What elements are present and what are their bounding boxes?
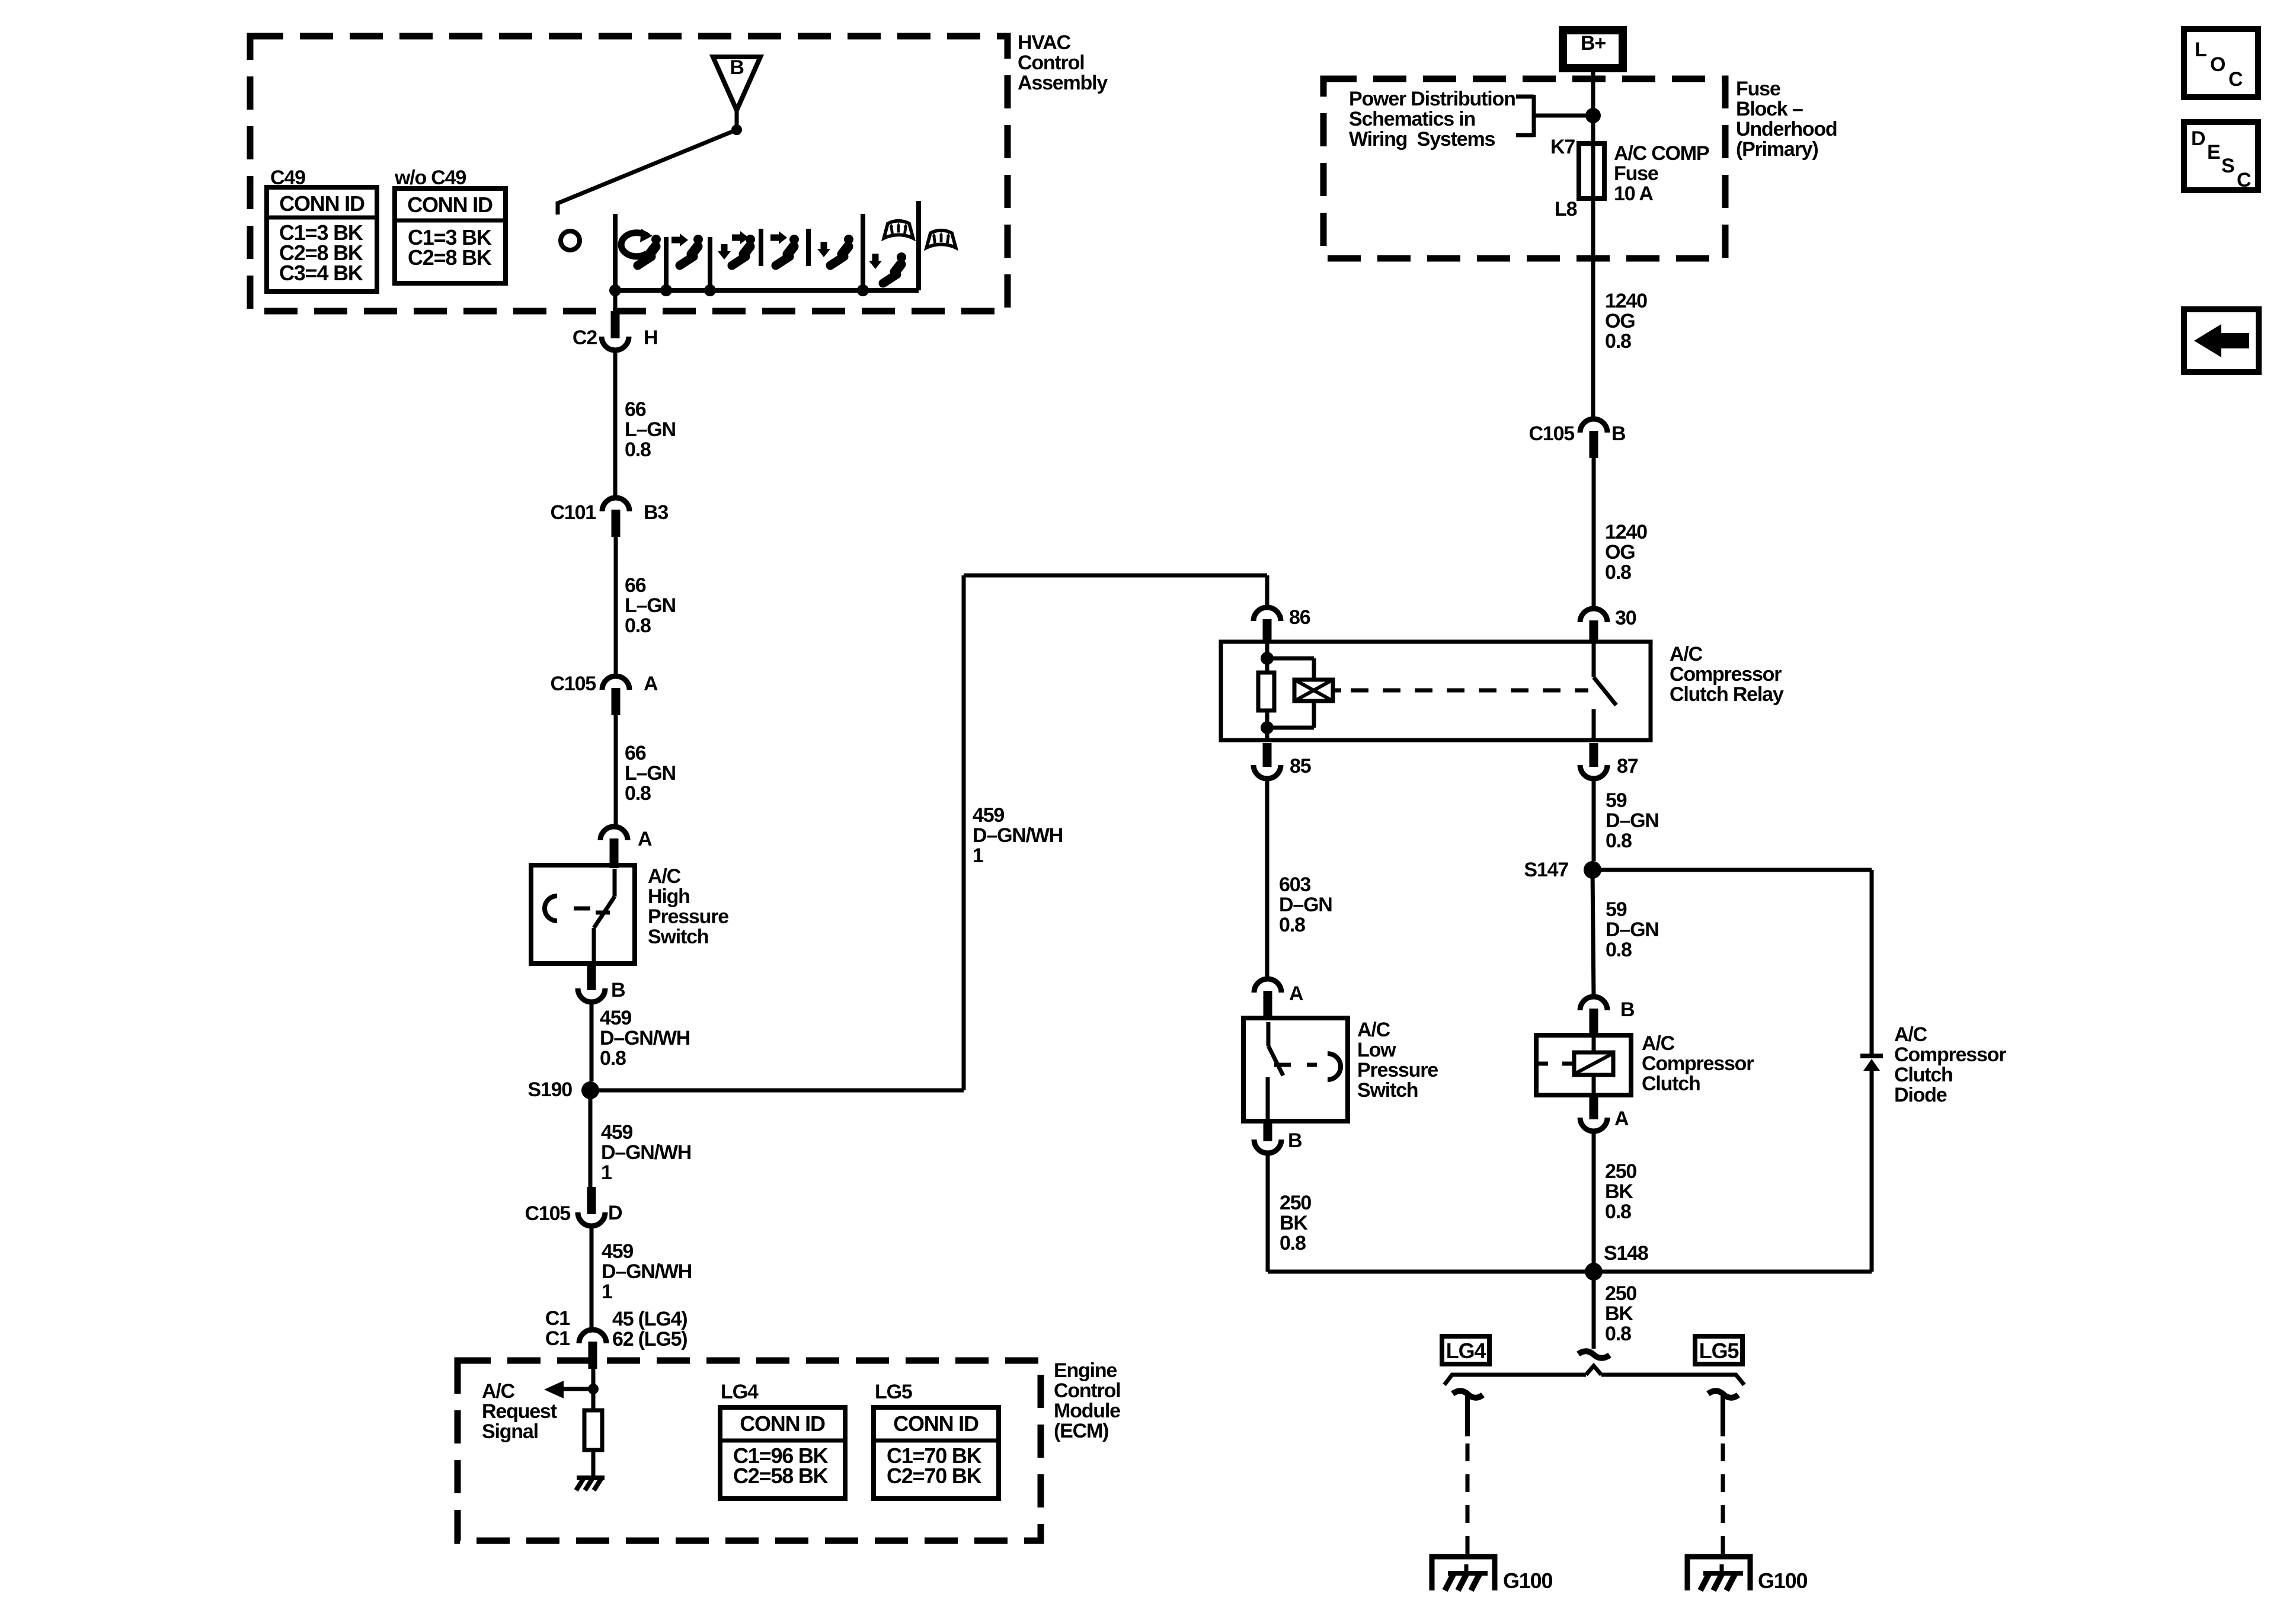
ground G100 (left)	[1464, 1564, 1469, 1573]
svg-text:C1=3 BKC2=8 BK: C1=3 BKC2=8 BK	[408, 225, 492, 270]
back arrow nav box	[2184, 309, 2259, 372]
wire resistor to ground	[591, 1450, 596, 1478]
ground bus wire at S148	[1268, 1270, 1872, 1274]
floor mode icon	[821, 242, 827, 250]
connector pin B of high pressure switch	[578, 988, 605, 1002]
low pressure switch contacts	[1267, 1022, 1271, 1046]
w/o C49 CONN ID table	[395, 188, 506, 283]
svg-text:C1=3 BKC2=8 BKC3=4 BK: C1=3 BKC2=8 BKC3=4 BK	[279, 220, 363, 285]
svg-text:C1=96 BKC2=58 BK: C1=96 BKC2=58 BK	[733, 1443, 829, 1488]
blend mode icon	[770, 235, 780, 241]
svg-text:A: A	[1289, 982, 1303, 1005]
LOC nav box	[2184, 29, 2258, 97]
bracket to power distribution	[1516, 95, 1534, 99]
relay pin 30 connector	[1580, 609, 1607, 622]
mode bus bar	[615, 288, 919, 293]
svg-text:C101: C101	[551, 501, 596, 524]
relay pin 85 connector	[1253, 765, 1281, 779]
svg-text:CONN ID: CONN ID	[407, 193, 493, 217]
A/C Compressor Clutch box	[1536, 1035, 1631, 1095]
svg-text:B: B	[730, 56, 744, 79]
svg-text:S148: S148	[1604, 1242, 1648, 1265]
wire relay 85 to LP switch (ckt 603)	[1265, 779, 1269, 979]
svg-text:S147: S147	[1524, 859, 1568, 881]
Fuse Block - Underhood dashed box	[1323, 79, 1725, 258]
bus junction 1	[609, 284, 621, 296]
svg-text:L8: L8	[1555, 198, 1577, 220]
wire bus to C2	[613, 290, 618, 312]
svg-text:C: C	[2228, 68, 2243, 91]
svg-text:S190: S190	[527, 1078, 572, 1101]
svg-text:C105: C105	[551, 673, 596, 695]
svg-text:45 (LG4)62 (LG5): 45 (LG4)62 (LG5)	[612, 1308, 687, 1350]
wire C105 B to relay 30 (ckt 1240)	[1592, 457, 1596, 609]
connector pin B of compressor clutch	[1580, 997, 1607, 1010]
svg-text:G100: G100	[1758, 1569, 1807, 1593]
svg-text:C105: C105	[525, 1202, 571, 1225]
relay switch contact	[1592, 642, 1596, 677]
svg-text:85: 85	[1290, 755, 1311, 777]
svg-text:86: 86	[1289, 606, 1310, 629]
battery feed B+ box	[1559, 26, 1627, 72]
bus junction 2	[660, 284, 672, 296]
fuse A/C COMP 10A	[1579, 143, 1604, 199]
HVAC Control Assembly dashed box	[250, 36, 1008, 311]
wire S147 to diode	[1593, 868, 1872, 872]
svg-text:B: B	[1288, 1129, 1302, 1152]
LG4 branch wire stub	[1465, 1396, 1470, 1436]
svg-text:D: D	[2191, 127, 2205, 150]
svg-text:K7: K7	[1550, 136, 1575, 158]
svg-text:LG4: LG4	[721, 1381, 759, 1403]
wire fuse to C105 B (ckt 1240)	[1591, 199, 1595, 419]
relay coil	[1265, 642, 1269, 673]
relay pin 86 connector	[1253, 607, 1281, 621]
A/C High Pressure Switch box	[531, 865, 635, 964]
splice crimp symbol	[1578, 1351, 1610, 1358]
connector C2 pin H	[602, 337, 629, 350]
svg-text:C: C	[2237, 169, 2251, 191]
junction at B+ feed	[1585, 108, 1601, 123]
svg-text:B: B	[1611, 422, 1626, 445]
svg-text:O: O	[2210, 53, 2225, 76]
wire C1 into ECM	[591, 1361, 596, 1384]
vent mode icon	[671, 237, 681, 244]
svg-text:LG5: LG5	[1699, 1339, 1739, 1363]
wire junction to resistor	[591, 1389, 596, 1410]
wire C101 to C105 (ckt 66)	[614, 536, 618, 676]
wire C105 to HP switch (ckt 66)	[614, 715, 618, 827]
connector pin A of high pressure switch	[600, 827, 628, 840]
svg-text:A: A	[1614, 1108, 1629, 1130]
connector pin B of low pressure switch	[1254, 1140, 1281, 1153]
svg-text:LG4: LG4	[1446, 1339, 1486, 1363]
splice S148	[1585, 1263, 1603, 1281]
LG4 CONN ID table	[720, 1407, 845, 1499]
defrost-floor mode icon	[884, 221, 913, 238]
svg-text:A: A	[644, 673, 658, 695]
Engine Control Module dashed box	[458, 1361, 1041, 1541]
wire S190 to relay pin 86 (ckt 459)	[590, 1089, 964, 1093]
relay solenoid branch	[1267, 657, 1314, 661]
lever end stub	[556, 201, 560, 215]
chevron to ground bus	[1586, 1366, 1601, 1375]
mode bar 6 (tall)	[861, 214, 865, 290]
relay pin 87 connector	[1580, 765, 1607, 779]
node B triangle (blower feed)	[713, 57, 760, 110]
mode separator 5	[806, 229, 811, 266]
svg-text:LG5: LG5	[875, 1381, 912, 1403]
bi-level mode icon	[721, 244, 728, 252]
LG5 branch dashed wire	[1721, 1443, 1725, 1564]
relay actuation dashed link	[1351, 689, 1588, 693]
svg-text:B3: B3	[644, 501, 668, 524]
svg-text:C1=70 BKC2=70 BK: C1=70 BKC2=70 BK	[887, 1443, 982, 1488]
connector C105 pin B	[1580, 419, 1607, 433]
splice S190	[581, 1081, 599, 1099]
connector C101 pin B3	[602, 498, 629, 511]
wire LP switch to S148 (ckt 250)	[1266, 1153, 1270, 1272]
LG5 tag box	[1695, 1336, 1742, 1364]
A/C Compressor Clutch Relay box	[1221, 642, 1651, 740]
connector C105 pin D	[578, 1212, 605, 1226]
svg-text:w/o C49: w/o C49	[394, 167, 466, 189]
mode bar 2	[664, 237, 669, 290]
A/C request signal wire	[562, 1387, 593, 1391]
svg-text:87: 87	[1617, 755, 1638, 777]
connector pin A of compressor clutch	[1580, 1118, 1607, 1131]
LG4/LG5 ground distribution line	[1444, 1375, 1744, 1385]
A/C request signal arrow	[544, 1381, 564, 1398]
wire B+ to fuse	[1591, 72, 1595, 143]
svg-text:H: H	[644, 327, 657, 349]
svg-text:A: A	[638, 828, 652, 850]
mode bar 1 (tall)	[613, 214, 618, 290]
pivot junction	[731, 124, 742, 135]
connector C105 pin A	[602, 676, 629, 690]
ground G100 (right)	[1720, 1564, 1724, 1573]
wire triangle to pivot	[735, 110, 739, 130]
recirculation mode icon	[621, 233, 648, 257]
mode switch lever	[558, 130, 737, 203]
mode bar 3	[708, 237, 712, 290]
LG5 branch wire stub	[1721, 1396, 1725, 1436]
connector C1 at ECM	[579, 1330, 606, 1343]
resistor (pull-up) in ECM	[584, 1410, 602, 1450]
svg-text:C105: C105	[1529, 422, 1575, 445]
wire diode to S148	[1870, 1071, 1874, 1272]
bus junction 3	[704, 284, 716, 296]
wire HP switch to S190 (ckt 459)	[590, 1002, 594, 1081]
bus junction 4	[857, 284, 869, 296]
svg-text:C1C1: C1C1	[545, 1307, 570, 1350]
wire clutch A to S148 (ckt 250)	[1592, 1131, 1596, 1272]
A/C Low Pressure Switch box	[1243, 1018, 1348, 1121]
wire S148 to splice point (ckt 250)	[1592, 1272, 1596, 1349]
diode A/C compressor clutch diode	[1860, 1054, 1883, 1058]
svg-text:D: D	[608, 1202, 622, 1224]
LG4 branch crimp	[1453, 1391, 1483, 1398]
wire relay 87 to S147 (ckt 59)	[1592, 779, 1596, 861]
wire S190 to C105 D (ckt 459)	[589, 1090, 593, 1187]
svg-text:B: B	[1620, 998, 1635, 1021]
wire C2 to C101 (ckt 66)	[613, 350, 618, 498]
svg-text:C2: C2	[573, 327, 597, 349]
mode bar 7 (tall)	[916, 201, 921, 290]
svg-text:S: S	[2221, 155, 2234, 177]
C49 CONN ID table	[267, 187, 377, 292]
LG4 branch dashed wire	[1466, 1443, 1470, 1564]
svg-text:CONN ID: CONN ID	[740, 1411, 825, 1436]
svg-text:30: 30	[1615, 607, 1636, 629]
mode switch rotor contact circle	[561, 231, 580, 250]
wire C105 D to ECM C1 (ckt 459)	[590, 1226, 594, 1330]
svg-text:E: E	[2207, 141, 2220, 164]
high pressure switch contacts	[613, 869, 617, 897]
defrost mode icon	[926, 231, 955, 248]
svg-text:CONN ID: CONN ID	[279, 191, 364, 216]
svg-text:G100: G100	[1503, 1569, 1552, 1593]
connector pin A of low pressure switch	[1254, 979, 1281, 993]
mode separator 4	[759, 229, 763, 266]
wire S147 to clutch B (ckt 59)	[1593, 870, 1594, 997]
ECM internal ground	[577, 1475, 605, 1480]
clutch coil	[1592, 1038, 1596, 1052]
svg-text:L: L	[2195, 39, 2207, 61]
LG4 tag box	[1442, 1336, 1489, 1364]
svg-text:B: B	[611, 979, 625, 1001]
DESC nav box	[2184, 122, 2258, 190]
LG5 CONN ID table	[874, 1407, 999, 1499]
svg-text:CONN ID: CONN ID	[893, 1411, 978, 1436]
LG5 branch crimp	[1708, 1391, 1738, 1398]
svg-text:B+: B+	[1581, 32, 1606, 55]
splice S147	[1584, 861, 1601, 879]
A/C request junction	[588, 1384, 599, 1394]
